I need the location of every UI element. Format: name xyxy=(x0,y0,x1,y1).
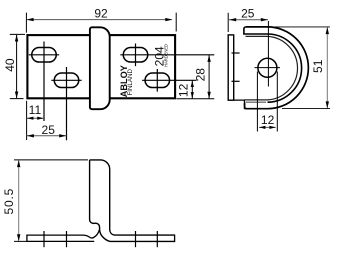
hole H1 (upper left) xyxy=(32,48,57,63)
dim 28 line xyxy=(208,55,210,99)
svg-text:12: 12 xyxy=(261,113,275,127)
hole tick upper xyxy=(232,52,240,54)
plate slab left end cap xyxy=(26,235,28,243)
hole H3 center cross xyxy=(120,44,214,67)
hole tick 2 xyxy=(66,231,68,247)
hole H4 (lower right) xyxy=(145,73,170,88)
dim 51 extension lines xyxy=(269,27,330,109)
hole tick 4 xyxy=(156,231,158,247)
staple outer profile xyxy=(245,27,309,109)
dim 92 line xyxy=(27,19,172,21)
dim 40 extension lines xyxy=(10,34,25,98)
staple far-side edge line and arc xyxy=(245,36,298,100)
hole tick 3 xyxy=(135,231,137,247)
dim 25 extension line xyxy=(227,13,229,32)
staple top cap left end, bottom edge and near-side inner arc xyxy=(244,27,302,102)
dim 51 arrows xyxy=(326,27,329,34)
svg-text:51: 51 xyxy=(311,59,325,73)
dim 11 arrows xyxy=(27,117,34,120)
hole center h line xyxy=(255,67,281,69)
dim 12 right: bottom extension line xyxy=(177,98,215,100)
dim 92 extension lines xyxy=(26,13,176,33)
hole tick lower xyxy=(232,80,240,82)
dim 50.5 extension lines xyxy=(14,160,88,242)
dim 40 arrows xyxy=(15,35,18,42)
hole H3 (upper right) xyxy=(123,48,148,63)
svg-text:12: 12 xyxy=(176,83,190,97)
plate slab right end cap xyxy=(174,235,176,243)
hole H2 center cross xyxy=(51,67,81,140)
dim 25 line xyxy=(229,19,268,21)
dim 92 arrows xyxy=(27,18,34,21)
padlock hole circle xyxy=(258,58,277,77)
dim 12 arrows xyxy=(259,126,265,129)
svg-text:25: 25 xyxy=(42,123,56,137)
svg-text:50.5: 50.5 xyxy=(2,188,16,215)
dim 12 tangent extension lines xyxy=(257,72,277,132)
dim 11 line xyxy=(27,117,44,119)
svg-text:25: 25 xyxy=(241,7,255,21)
dim 50.5 arrows xyxy=(17,160,20,167)
plate slab left bottom edge xyxy=(27,240,94,242)
svg-text:28: 28 xyxy=(193,68,207,82)
svg-text:FINLAND: FINLAND xyxy=(127,69,134,96)
plate slab left top edge with dip xyxy=(27,230,100,238)
dim 40 line xyxy=(16,35,18,98)
plate outline plan view xyxy=(27,35,175,98)
dim 11 extension line xyxy=(26,101,28,140)
dim 25 arrows xyxy=(229,18,236,21)
hole H1 center cross xyxy=(29,42,59,122)
svg-text:11: 11 xyxy=(29,103,42,117)
plate edge-on xyxy=(228,35,234,100)
staple loop left edge with S-jog and neck xyxy=(90,160,175,242)
hole tick 1 xyxy=(43,231,45,247)
hole H2 (lower middle-left) xyxy=(54,73,79,88)
hole H4 center cross xyxy=(142,69,196,92)
svg-text:40: 40 xyxy=(3,58,17,72)
hole center v line xyxy=(267,21,269,87)
staple bottom cap step xyxy=(234,100,247,109)
dim 25 arrows xyxy=(27,134,34,137)
staple loop plan view xyxy=(90,27,110,109)
dim 12 line xyxy=(259,126,276,128)
staple loop upright: top edge + right edge to right slab top edge xyxy=(90,160,175,235)
dim 28 arrows xyxy=(207,55,210,62)
dim 12 line xyxy=(191,80,193,99)
svg-text:HARDENED: HARDENED xyxy=(164,44,169,67)
dim 25 line xyxy=(27,135,67,137)
svg-text:92: 92 xyxy=(94,6,108,20)
dim 50.5 line xyxy=(18,161,20,241)
dim 12 arrows xyxy=(191,81,194,88)
dim 51 line xyxy=(326,28,328,109)
staple bottom cap inner grey tangent line xyxy=(245,101,266,103)
